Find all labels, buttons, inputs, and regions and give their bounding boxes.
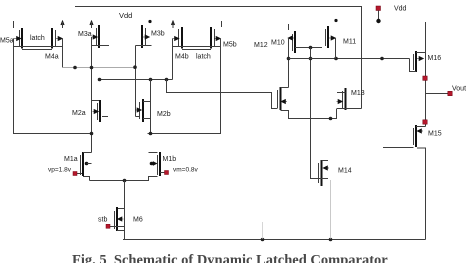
svg-text:M3b: M3b bbox=[151, 31, 165, 38]
node stb input bbox=[106, 224, 110, 228]
wire latch-a cross line bbox=[14, 39, 63, 47]
transistor M5b bbox=[211, 21, 222, 49]
label stb bbox=[98, 217, 107, 224]
wire long vertical to M14 bbox=[311, 48, 322, 179]
label M2b bbox=[157, 111, 171, 118]
svg-text:latch: latch bbox=[30, 35, 45, 42]
svg-text:Vout: Vout bbox=[452, 86, 466, 93]
wire M5b drop bbox=[148, 39, 221, 134]
node Vout marker bbox=[448, 91, 452, 95]
wire M12 drain bbox=[281, 87, 289, 89]
svg-text:M5b: M5b bbox=[223, 42, 237, 49]
transistor M4b bbox=[171, 20, 182, 48]
svg-text:vp=1.8v: vp=1.8v bbox=[48, 167, 72, 174]
transistor M11 bbox=[326, 19, 338, 48]
svg-text:stb: stb bbox=[98, 217, 107, 224]
transistor M2b bbox=[136, 99, 151, 122]
svg-text:Vdd: Vdd bbox=[394, 6, 407, 13]
node M15 drain marker bbox=[423, 120, 427, 124]
svg-text:vm=0.8v: vm=0.8v bbox=[173, 167, 198, 174]
transistor M4a bbox=[52, 20, 64, 48]
wire M2b drain/source riser bbox=[150, 80, 152, 134]
wire M6 source bbox=[117, 230, 125, 232]
wire M3a source dash bbox=[92, 45, 110, 47]
label M12 bbox=[254, 42, 268, 49]
wire M16 drain bbox=[416, 22, 426, 53]
label M4b bbox=[175, 54, 189, 61]
label M1b bbox=[163, 156, 177, 163]
transistor M5a bbox=[14, 21, 23, 49]
transistor M12 bbox=[278, 87, 288, 110]
label M3a bbox=[78, 31, 92, 38]
wire M3a-M2a vertical bbox=[91, 37, 93, 153]
ground rail bbox=[123, 239, 426, 241]
svg-text:M1a: M1a bbox=[64, 156, 78, 163]
wire M12 source to M13 bbox=[281, 109, 337, 119]
label vp=1.8v bbox=[48, 167, 72, 174]
svg-text:M1b: M1b bbox=[163, 156, 177, 163]
label M4a bbox=[45, 54, 59, 61]
node M16 source marker bbox=[423, 76, 427, 80]
label M5b bbox=[223, 42, 237, 49]
svg-text:M6: M6 bbox=[133, 217, 143, 224]
wire M15 drain lead bbox=[416, 126, 426, 128]
label M3b bbox=[151, 31, 165, 38]
wire left tail vertical bbox=[14, 47, 92, 134]
wire faint stub above rail dot bbox=[262, 222, 264, 239]
wire M1a source bbox=[83, 177, 90, 181]
wire M15 source bbox=[417, 148, 426, 240]
svg-text:M2a: M2a bbox=[72, 110, 86, 117]
wire M1a drain bbox=[83, 152, 92, 154]
label Vdd left bbox=[119, 11, 132, 20]
wire latch output line y58 bbox=[289, 58, 410, 60]
wire M1b drain stub bbox=[149, 152, 158, 154]
transistor M2a bbox=[93, 100, 109, 122]
wire Vout bbox=[426, 93, 449, 95]
wire M11 arrow drop bbox=[335, 38, 337, 59]
svg-text:M14: M14 bbox=[338, 168, 352, 175]
wire M1b source bbox=[149, 177, 158, 181]
node Vdd right marker bbox=[376, 6, 381, 11]
svg-text:M16: M16 bbox=[428, 55, 442, 62]
svg-text:Vdd: Vdd bbox=[119, 11, 132, 20]
wire M3b to M2b gate vertical bbox=[135, 46, 137, 117]
label M2a bbox=[72, 110, 86, 117]
transistor M3b bbox=[142, 20, 152, 48]
transistor M1a bbox=[81, 152, 92, 176]
wire M6 drain drop bbox=[124, 181, 126, 240]
svg-text:M11: M11 bbox=[343, 39, 356, 46]
transistor M15 bbox=[414, 125, 424, 147]
label vm=0.8v bbox=[173, 167, 198, 174]
label M15 bbox=[428, 131, 442, 138]
label M11 bbox=[343, 39, 356, 46]
label M14 bbox=[338, 168, 352, 175]
wire latch-b bottom bbox=[182, 49, 211, 51]
wire M14 bottom lead bbox=[311, 178, 329, 180]
wire gate link M10-M11 bbox=[295, 47, 322, 49]
wire latch-b cross line bbox=[173, 46, 221, 48]
wire M10 gate drop bbox=[288, 38, 290, 88]
label Vout bbox=[452, 86, 466, 93]
wire tail line bbox=[90, 180, 150, 182]
wire M16 source / out vertical bbox=[425, 53, 427, 127]
label M6 bbox=[133, 217, 143, 224]
svg-text:M3a: M3a bbox=[78, 31, 92, 38]
svg-text:M2b: M2b bbox=[157, 111, 171, 118]
label Vdd right bbox=[394, 6, 407, 13]
label latch (left) bbox=[30, 35, 45, 42]
node line y80 bbox=[100, 79, 173, 81]
transistor M16 bbox=[414, 51, 424, 72]
transistor M10 bbox=[288, 24, 295, 53]
label M1a bbox=[64, 156, 78, 163]
wire M15 gate bbox=[383, 147, 414, 149]
transistor M14 bbox=[319, 160, 330, 186]
label M16 bbox=[428, 55, 442, 62]
svg-text:M13: M13 bbox=[351, 90, 365, 97]
wire M13 right connection bbox=[346, 108, 362, 110]
label latch (right) bbox=[196, 54, 211, 61]
wire M16 gate bracket bbox=[410, 59, 417, 72]
transistor M1b bbox=[150, 152, 160, 176]
svg-text:M12: M12 bbox=[254, 42, 268, 49]
svg-text:latch: latch bbox=[196, 54, 211, 61]
Vdd rail top bbox=[75, 7, 362, 109]
svg-text:M4a: M4a bbox=[45, 54, 59, 61]
transistor M6 bbox=[115, 207, 124, 231]
wire M4b drop bbox=[172, 39, 174, 80]
transistor M13 bbox=[337, 88, 346, 110]
label M13 bbox=[351, 90, 365, 97]
label M5a bbox=[0, 38, 14, 45]
wire to M12 gate bbox=[167, 80, 278, 109]
svg-text:M15: M15 bbox=[428, 131, 442, 138]
node vp input bbox=[73, 172, 77, 176]
wire M3b source bbox=[136, 45, 152, 47]
svg-text:M4b: M4b bbox=[175, 54, 189, 61]
svg-text:M10: M10 bbox=[271, 40, 285, 47]
label M10 bbox=[271, 40, 285, 47]
wire M4a drop bbox=[62, 47, 64, 68]
svg-text:M5a: M5a bbox=[0, 38, 14, 45]
node vm input bbox=[165, 171, 169, 175]
transistor M3a bbox=[90, 20, 99, 48]
node faint latch line bbox=[63, 67, 136, 69]
node tail-a junction bbox=[90, 132, 94, 136]
wire faint M14 source drop bbox=[330, 180, 332, 239]
wire latch-a bottom bbox=[22, 49, 52, 51]
svg-text:Fig. 5 Schematic of Dynamic L: Fig. 5 Schematic of Dynamic Latched Comp… bbox=[72, 253, 388, 263]
